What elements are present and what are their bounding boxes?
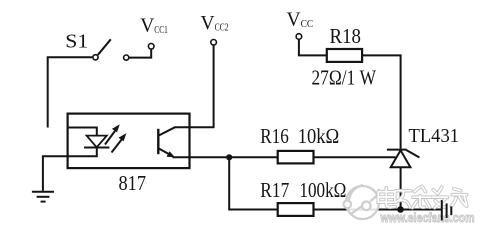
- terminal VCC circle: [296, 34, 302, 40]
- svg-text:R16: R16: [260, 124, 289, 148]
- phototransistor Q1 emitter arrowhead: [167, 151, 176, 157]
- switch S1 pole contact circle: [93, 55, 98, 60]
- svg-text:27Ω/1 W: 27Ω/1 W: [312, 66, 377, 90]
- wire: S1 row horizontal from left vertical to switch pole: [48, 57, 93, 127]
- LED light arrow 1: [105, 128, 118, 145]
- LED D1 cathode wire out of box: [43, 148, 97, 191]
- svg-text:TL431: TL431: [409, 125, 460, 147]
- wire: switch throw to VCC1 stem: [129, 49, 151, 57]
- TL431 U2 cathode bar: [387, 149, 407, 151]
- switch S1 blade (diagonal): [98, 39, 111, 55]
- optocoupler U1 817 box: [68, 114, 190, 169]
- phototransistor Q1 base bar: [157, 129, 159, 154]
- watermark logo circle: [344, 185, 380, 219]
- terminal VCC2 circle: [211, 40, 217, 46]
- wire: junction A down to R17 row: [229, 157, 278, 209]
- switch S1 throw contact circle: [124, 55, 129, 60]
- wire: VCC2 stem down to collector: [174, 45, 214, 127]
- svg-text:VCC1: VCC1: [140, 16, 168, 37]
- svg-text:www.elecfans.com: www.elecfans.com: [380, 211, 475, 225]
- wire: R16 right to TL431 ref slope: [314, 156, 396, 158]
- junction node A dot: [226, 154, 232, 160]
- svg-text:R18: R18: [330, 24, 362, 48]
- LED D1 triangle: [87, 136, 107, 148]
- terminal VCC1 circle: [148, 44, 154, 50]
- TL431 U2 triangle: [391, 150, 411, 167]
- svg-text:VCC: VCC: [287, 10, 314, 31]
- wire: VCC stem down and right to R18: [299, 40, 327, 56]
- LED light arrow 2 head: [119, 133, 127, 141]
- LED light arrow 1 head: [112, 124, 120, 132]
- svg-text:100kΩ: 100kΩ: [299, 178, 346, 202]
- wire: R17 right to TL431 anode junction and right ground: [314, 209, 442, 211]
- svg-text:R17: R17: [260, 178, 289, 202]
- resistor R16 body: [278, 151, 314, 164]
- resistor R17 body: [278, 203, 314, 216]
- phototransistor Q1 collector diagonal: [159, 127, 175, 135]
- wire: R18 right to TL431 cathode drop: [362, 55, 401, 148]
- svg-text:817: 817: [119, 171, 147, 195]
- ground GND1 bars: [32, 192, 54, 202]
- svg-text:VCC2: VCC2: [201, 13, 229, 34]
- LED light arrow 2: [112, 137, 125, 153]
- resistor R18 body: [327, 49, 362, 62]
- junction node B dot: [397, 206, 404, 213]
- phototransistor Q1 emitter diagonal: [159, 149, 172, 156]
- svg-text:10kΩ: 10kΩ: [298, 124, 340, 148]
- LED D1 anode wire into box: [67, 128, 97, 136]
- wire: TL431 anode down to junction B: [400, 167, 402, 209]
- TL431 U2 reference diagonal: [406, 150, 419, 158]
- LED D1 cathode bar: [84, 147, 109, 149]
- ground GND2 bars (sideways, right): [442, 200, 452, 220]
- svg-text:S1: S1: [65, 31, 88, 53]
- wire: emitter out to junction A and R16: [173, 156, 278, 158]
